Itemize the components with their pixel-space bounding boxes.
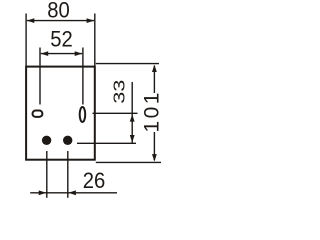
svg-text:101: 101 xyxy=(141,93,164,133)
svg-text:33: 33 xyxy=(111,80,129,104)
svg-text:26: 26 xyxy=(83,168,106,193)
svg-text:52: 52 xyxy=(50,26,73,51)
svg-text:80: 80 xyxy=(47,0,70,23)
